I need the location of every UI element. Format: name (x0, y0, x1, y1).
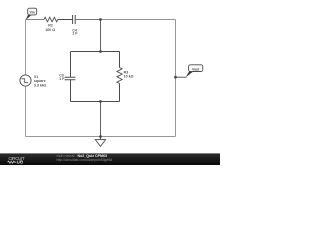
capacitor C3 (65, 77, 76, 80)
resistor R2 (44, 17, 58, 22)
wire box right upper (119, 52, 121, 68)
svg-text:Vin: Vin (30, 11, 35, 15)
capacitor C4 (73, 15, 76, 24)
node dot bottom wire (99, 135, 102, 138)
ground stem (100, 137, 102, 140)
node dot top center (99, 18, 102, 21)
ground symbol (95, 140, 105, 147)
svg-text:1 F: 1 F (72, 32, 78, 36)
node dot box top (99, 50, 102, 53)
voltage source V1 circle (20, 75, 31, 86)
wire left side upper (25, 20, 27, 75)
wire box left lower (70, 80, 72, 102)
wire R2 to C4 (58, 19, 73, 21)
net label Vin (26, 8, 37, 20)
svg-text:1 F: 1 F (59, 77, 65, 81)
resistor R3 (117, 68, 122, 84)
wire C4 to top-right corner (75, 19, 100, 21)
wire bottom (26, 136, 176, 138)
wire box left upper (70, 52, 72, 78)
node dot box bottom (99, 100, 102, 103)
CircuitLab logo resistor squiggle (8, 161, 17, 163)
wire box top (71, 51, 120, 53)
wire box bottom (71, 101, 120, 103)
net label Vout (176, 65, 203, 78)
svg-text:http://circuitlab.com/c6aepd4r: http://circuitlab.com/c6aepd4r83ge5d (57, 158, 113, 162)
wire left side lower (25, 86, 27, 136)
wire box right lower (119, 84, 121, 102)
wire center stem top (100, 20, 102, 52)
svg-text:3.3 kHz: 3.3 kHz (34, 83, 47, 87)
watermark bar (0, 153, 220, 165)
voltage source V1 square-wave glyph (21, 79, 28, 83)
wire right side (175, 20, 177, 137)
svg-text:LAB: LAB (17, 160, 23, 165)
svg-text:100 Ω: 100 Ω (45, 28, 55, 32)
svg-text:10 kΩ: 10 kΩ (124, 75, 134, 79)
svg-text:Vout: Vout (192, 67, 200, 71)
wire top-left segment (26, 19, 45, 21)
node dot Vout (174, 76, 177, 79)
wire center stem bottom (100, 102, 102, 137)
